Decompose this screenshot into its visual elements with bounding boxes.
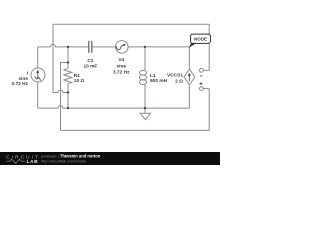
svg-text:NODE: NODE <box>194 37 207 42</box>
current source IS1 <box>31 68 45 82</box>
inductor L1 <box>139 70 146 84</box>
svg-text:sine: sine <box>18 76 28 82</box>
wire bottom horizontal and right side up to port bottom <box>61 89 210 131</box>
wire y107.9 ground net with hop over x60.5 <box>38 106 190 108</box>
junction dot R1 top <box>67 46 69 48</box>
wire y46.9 C1 to V4 <box>92 46 116 48</box>
wire top horizontal <box>53 23 209 25</box>
wire R1 bottom lead <box>67 84 69 108</box>
wire right side down to port top <box>203 24 209 70</box>
wire y92.5 with hop over x60.5 <box>53 90 68 93</box>
wire vertical x53 <box>52 24 54 92</box>
svg-text:3.72 Hz: 3.72 Hz <box>113 69 130 75</box>
junction dot R1 bottom <box>67 91 69 93</box>
junction dot ground net R1 <box>67 107 69 109</box>
dependent source VCCS1 <box>184 69 195 85</box>
terminal plus (port bottom) <box>200 87 204 91</box>
svg-text:2 Ω: 2 Ω <box>175 79 183 85</box>
svg-text:V4: V4 <box>118 57 124 63</box>
wire R1 top lead <box>67 47 69 68</box>
junction dot ground <box>144 107 146 109</box>
svg-text:http://circuitlab.com/c429e: http://circuitlab.com/c429e <box>41 159 86 164</box>
wire y46.9 V4 to VCCS corner <box>128 46 189 48</box>
wire IS1 branch bottom lead <box>37 82 39 108</box>
svg-text:10 Ω: 10 Ω <box>74 78 85 84</box>
wire L1 bottom lead <box>144 84 146 108</box>
svg-text:C1: C1 <box>87 58 93 64</box>
capacitor C1 <box>89 41 92 53</box>
junction dot L1 top <box>144 46 146 48</box>
svg-text:VCCS1: VCCS1 <box>167 73 183 79</box>
logo resistor glyph <box>7 159 25 163</box>
svg-text:sine: sine <box>116 63 126 69</box>
junction dot R1 tap <box>67 61 69 63</box>
node flag NODE <box>189 43 196 47</box>
ground <box>144 108 146 113</box>
wire IS1 branch top lead <box>37 47 39 68</box>
wire L1 top lead <box>144 47 146 71</box>
terminal minus (port top) <box>200 68 204 72</box>
svg-text:LAB: LAB <box>27 159 39 164</box>
wire port bottom stub <box>203 88 209 90</box>
resistor R1 <box>64 68 72 84</box>
svg-text:10 mF: 10 mF <box>83 63 97 69</box>
wire y46.9 left segment with hop over x53 <box>38 44 89 47</box>
footer bar <box>0 152 220 165</box>
svg-text:500 mH: 500 mH <box>150 78 168 84</box>
svg-text:3.72 Hz: 3.72 Hz <box>11 81 28 87</box>
wire VCCS top lead <box>188 47 190 69</box>
wire x60.5 vertical with stub to R1 tap <box>61 63 69 131</box>
voltage source V4 <box>116 41 129 54</box>
svg-text:I: I <box>27 71 29 77</box>
wire VCCS bottom lead <box>188 85 190 108</box>
